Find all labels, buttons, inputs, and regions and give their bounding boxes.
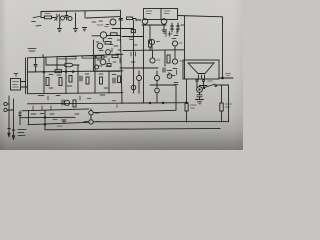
resistor R3 bbox=[167, 55, 170, 63]
wire long feedback D bbox=[45, 128, 220, 129]
label in J1 bbox=[13, 82, 19, 88]
marks between rails bbox=[92, 21, 109, 25]
capacitor C2 bbox=[65, 11, 68, 20]
wire J1 to ladder b bbox=[21, 86, 28, 88]
wire rail B bbox=[20, 116, 75, 118]
junction dot x45 C bbox=[44, 124, 46, 126]
wire vertical into transformer bbox=[184, 16, 186, 79]
transformer core lines bbox=[199, 75, 205, 79]
meter needle dot bbox=[199, 89, 200, 90]
transistor Q3a bbox=[110, 19, 116, 25]
components on rail 93 bbox=[38, 95, 105, 100]
central amp cluster box left edge bbox=[93, 40, 95, 71]
terminal A bbox=[196, 80, 198, 82]
transistor Q1 bbox=[61, 16, 65, 20]
wire long vertical x120 bbox=[120, 10, 122, 36]
wire transformer corner down bbox=[186, 79, 188, 103]
label input lines bbox=[18, 130, 26, 136]
small marks cluster center bbox=[96, 40, 137, 66]
plug arrow A bbox=[8, 133, 11, 137]
plug arrow B bbox=[12, 136, 15, 140]
wire y85 link bbox=[150, 84, 176, 86]
plug tick B bbox=[12, 129, 15, 131]
wire vertical x143 bbox=[143, 25, 145, 103]
wire rail y67 bbox=[120, 67, 158, 69]
label Q15 bbox=[95, 111, 99, 113]
label inside box right bbox=[164, 11, 170, 14]
resistor R10 bbox=[69, 76, 72, 83]
wire top rail bbox=[41, 10, 121, 11]
capacitor C6 bbox=[80, 76, 82, 81]
wire rail y103 bbox=[28, 103, 187, 104]
wire ladder vertical x25 bbox=[25, 58, 27, 94]
wire mic to R1 bbox=[41, 17, 44, 19]
wire long feedback C bbox=[93, 120, 228, 122]
wire top rail left drop bbox=[40, 12, 42, 18]
tick on rail bbox=[42, 55, 44, 58]
terminal B bbox=[203, 80, 205, 82]
transistor Q13b bbox=[95, 65, 99, 69]
resistor R13 bbox=[73, 100, 76, 107]
resistor R2 bbox=[127, 17, 133, 20]
transistor Q21 bbox=[155, 88, 160, 93]
transistor Q8 bbox=[150, 58, 155, 63]
resistor R6 bbox=[112, 55, 118, 58]
wire terminal A down bbox=[196, 82, 198, 88]
wire link y36 bbox=[122, 36, 144, 38]
wire Q21 lead bbox=[156, 93, 158, 103]
wire Q3 to vertical bbox=[107, 35, 121, 37]
label R4 bbox=[226, 104, 232, 107]
wire R4 down bbox=[221, 111, 223, 122]
input jack JK2 bbox=[4, 108, 7, 111]
marks near x133 bbox=[129, 37, 133, 40]
capacitor C3 on vertical bbox=[119, 19, 123, 21]
oscillator box divider bbox=[160, 9, 162, 20]
label Q16 bbox=[96, 121, 101, 123]
transistor Q12 bbox=[106, 50, 111, 55]
wire Q5 down bbox=[163, 25, 165, 30]
wire stub corner bbox=[46, 57, 64, 65]
connector block J1 bbox=[11, 79, 21, 91]
label R12 bbox=[191, 105, 197, 108]
transistor Q7 bbox=[172, 41, 177, 46]
input jack JK1 bbox=[4, 102, 7, 105]
wire rail C left bbox=[28, 122, 89, 124]
wire vertical x165 bbox=[164, 50, 166, 66]
transformer T1 trapezoid bbox=[188, 63, 214, 74]
resistor R4 bbox=[220, 103, 223, 111]
resistor R7 bbox=[96, 56, 102, 59]
oscillator box U1 bbox=[144, 9, 178, 20]
pot wiper arrow bbox=[55, 16, 59, 21]
long resistor block A bbox=[57, 57, 76, 59]
wire Q3 down bbox=[102, 38, 104, 42]
ground below Q1 bbox=[58, 29, 62, 32]
ground near x84 bbox=[83, 28, 87, 31]
label under Q3a bbox=[97, 25, 109, 27]
wire Q7 leads bbox=[174, 46, 176, 59]
inductor L1 oval bbox=[64, 63, 73, 67]
resistor R16 bbox=[118, 76, 121, 83]
wire Q2 emitter down bbox=[75, 13, 77, 28]
resistor R15 bbox=[100, 77, 103, 84]
label S1 bbox=[208, 80, 213, 82]
label under R2b bbox=[108, 38, 112, 40]
resistor R14 on mid rail bbox=[55, 70, 62, 73]
capacitor C4 plus marks bbox=[166, 25, 184, 39]
wire second rail bbox=[86, 17, 120, 18]
long resistor block B bbox=[82, 56, 104, 58]
wire vertical x133 bbox=[133, 20, 135, 93]
junction dot right loop bbox=[222, 77, 224, 79]
wire ladder vertical x109 bbox=[108, 71, 110, 93]
wire ladder rail top bbox=[28, 54, 124, 58]
transistor Q4 bbox=[142, 19, 148, 25]
wire Q19 leads bbox=[156, 71, 158, 88]
resistor R1 bbox=[45, 16, 52, 19]
capacitor C12 on x35 bbox=[34, 58, 37, 72]
small marks bottom rails bbox=[31, 106, 99, 122]
wire terminal B down bbox=[203, 82, 205, 88]
wire ladder vertical x27 bbox=[27, 58, 29, 94]
capacitor C9 below meter bbox=[197, 92, 202, 99]
resistor R2b bbox=[111, 33, 118, 36]
label above R1 bbox=[45, 13, 50, 15]
transistor Q14 bbox=[64, 100, 69, 105]
wire Q15 output bbox=[93, 110, 176, 112]
wire drop x85 bbox=[84, 11, 86, 18]
capacitor C8 bbox=[62, 100, 64, 105]
transistor Q9 bbox=[172, 59, 177, 64]
transistor Q18 bbox=[137, 76, 142, 81]
ground bottom left bbox=[62, 120, 66, 123]
small parts cluster mid right bbox=[167, 69, 177, 76]
wire right down to bottom rail bbox=[228, 85, 230, 122]
label ohms bbox=[226, 74, 231, 76]
paper background bbox=[0, 0, 243, 150]
wire long vertical x120 lower bbox=[121, 36, 123, 104]
ground below Q5 bbox=[162, 30, 167, 33]
small marks ladder right bbox=[99, 74, 116, 88]
ground below Q2 bbox=[74, 29, 78, 32]
capacitor C5 bbox=[163, 68, 165, 72]
meter M1 bbox=[197, 87, 203, 93]
labels beside transistors bbox=[157, 41, 183, 61]
wire oval to right bbox=[73, 64, 79, 66]
wire meter branch bbox=[200, 86, 208, 87]
extra bottom labels bbox=[53, 98, 117, 126]
wire ladder rail bottom bbox=[28, 93, 124, 94]
label T bbox=[14, 74, 18, 77]
wire ladder vertical x44 bbox=[43, 57, 45, 93]
wire transistor bottoms bbox=[142, 24, 166, 26]
junction dot R12 top bbox=[186, 102, 188, 104]
wire Q4 down bbox=[149, 25, 151, 40]
wire vertical x20 bbox=[19, 111, 21, 125]
transistor Q16 bbox=[89, 120, 93, 124]
junction dots rail y103 bbox=[149, 102, 151, 104]
wire input vertical x9 bbox=[8, 96, 10, 133]
resistor R17 bbox=[107, 64, 111, 67]
transistor Q2 bbox=[68, 17, 72, 21]
component marks on x20 bbox=[19, 113, 22, 116]
wire rail A bbox=[22, 109, 89, 111]
switch S1 terminal right bbox=[215, 85, 217, 87]
wire Q1 emitter down bbox=[59, 21, 62, 28]
wire switch to right bbox=[217, 84, 229, 86]
wire ladder vertical x78 bbox=[77, 65, 79, 93]
label VOL bbox=[28, 49, 36, 52]
small marks ladder bbox=[49, 74, 89, 88]
resistor R12 bbox=[185, 103, 188, 111]
capacitor C10 bbox=[113, 78, 115, 83]
label MIC bbox=[32, 17, 42, 27]
wire R2 to Q4 bbox=[133, 19, 142, 21]
wire ladder mid rail bbox=[28, 71, 124, 72]
plug tick A bbox=[8, 128, 11, 130]
wire vertical x176 up bbox=[175, 86, 177, 110]
wire box right to big loop bbox=[178, 16, 223, 17]
wire box top center bbox=[112, 28, 134, 30]
diode D2 bbox=[177, 23, 180, 32]
wire speaker line bbox=[219, 77, 233, 79]
resistor R8 bbox=[46, 78, 49, 86]
switch S1 bbox=[205, 84, 216, 88]
junction dots mid rail bbox=[43, 71, 45, 73]
wire bottom of center cluster bbox=[94, 70, 121, 72]
label inside box left bbox=[146, 11, 152, 14]
wire R18 down bbox=[149, 47, 151, 50]
transistor Q5 bbox=[161, 19, 167, 25]
wire J1 to ladder a bbox=[21, 81, 26, 83]
wire input vertical x13 bbox=[13, 99, 15, 135]
transistor Q19 bbox=[155, 76, 160, 81]
resistor R9 bbox=[59, 78, 62, 86]
resistor R11 bbox=[86, 77, 89, 84]
resistor R5 bbox=[105, 42, 111, 45]
capacitor C7 top marks bbox=[174, 83, 178, 85]
transistor Q11 bbox=[97, 43, 103, 49]
transistor Q13 bbox=[100, 59, 106, 65]
wire ladder vertical x95 bbox=[94, 55, 96, 93]
resistor R18 bbox=[149, 40, 152, 47]
wire vertical x28.5 bbox=[28, 111, 30, 125]
wire Q6 leads bbox=[151, 45, 154, 58]
capacitor C11 on x133 bbox=[131, 30, 135, 33]
switch S1 terminal left bbox=[203, 87, 205, 89]
wire stub to Q15 bbox=[90, 109, 92, 111]
transistor Q6 bbox=[149, 39, 154, 44]
wire R4 up bbox=[221, 85, 223, 103]
wire Q18 leads bbox=[138, 71, 140, 93]
ground below meter bbox=[196, 100, 204, 104]
wire ladder vertical x66 bbox=[65, 56, 67, 93]
diode D1 bbox=[171, 23, 174, 32]
transistor Q10b bbox=[167, 74, 172, 79]
wire R1 to C bbox=[52, 17, 56, 19]
transistor Q20 bbox=[131, 85, 136, 90]
capacitor C1 bbox=[57, 14, 60, 21]
transistor Q15 bbox=[89, 111, 93, 115]
wire R12 down bbox=[186, 111, 188, 122]
transistor Q3 bbox=[100, 32, 106, 38]
output transformer T1 box bbox=[183, 60, 219, 79]
wire rail y50 bbox=[123, 49, 185, 52]
wire Q15 to Q16 bbox=[90, 115, 92, 120]
wire ladder vertical x57 bbox=[56, 59, 58, 70]
wire vertical x45 bbox=[44, 110, 46, 129]
wire jack leads bbox=[7, 104, 13, 110]
wire right loop vertical bbox=[222, 17, 224, 78]
wire rail y35.5 bbox=[92, 35, 100, 37]
junction dot x45 B bbox=[44, 117, 46, 119]
